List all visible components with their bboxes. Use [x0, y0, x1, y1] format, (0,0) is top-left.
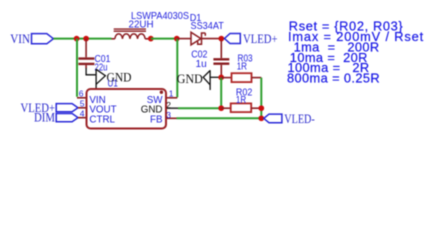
svg-text:1: 1: [169, 88, 174, 98]
wire FB pin stub: [166, 117, 177, 119]
port VLED+ top: [225, 32, 278, 46]
ground GND2 (C02): [203, 70, 221, 90]
wire pin2 to R02: [178, 107, 221, 109]
svg-text:1u: 1u: [196, 59, 207, 70]
node junction pin2/R02: [218, 105, 224, 111]
node junction FB/VLED-: [258, 115, 264, 121]
svg-text:VLED-: VLED-: [284, 112, 315, 126]
svg-text:LSWPA4030S: LSWPA4030S: [131, 11, 189, 22]
node junction left2: [83, 36, 89, 42]
wire R03 right stub: [252, 77, 262, 79]
inductor L1: [112, 29, 149, 39]
capacitor C01: [78, 39, 94, 69]
pin1 dot marker: [160, 91, 163, 94]
svg-text:DIM: DIM: [34, 111, 55, 125]
svg-text:VLED+: VLED+: [243, 32, 278, 46]
svg-text:CTRL: CTRL: [89, 114, 115, 125]
svg-text:FB: FB: [150, 114, 163, 125]
wire R03 left stub: [221, 77, 231, 79]
svg-text:800ma = 0.25R: 800ma = 0.25R: [287, 71, 380, 86]
wire inductor to SW node: [151, 38, 177, 40]
svg-text:GND: GND: [177, 71, 203, 86]
svg-text:4: 4: [80, 109, 85, 119]
port VLED-: [264, 112, 315, 126]
wire vertical to SW pin: [176, 39, 178, 98]
svg-text:1R: 1R: [236, 95, 246, 106]
wire GND vertical C02 to pin2 row: [220, 77, 222, 108]
wire VIN rail: [53, 38, 111, 40]
wire pin5 stub: [78, 107, 87, 109]
svg-text:3: 3: [166, 110, 171, 120]
node junction VLED+: [218, 36, 224, 42]
wire pin6 stub: [77, 97, 87, 99]
capacitor C02: [213, 40, 229, 77]
svg-text:5: 5: [80, 99, 85, 109]
node junction R02 right: [258, 105, 264, 111]
IC U1 body: [87, 89, 167, 129]
wire FB to VLED-: [177, 117, 262, 119]
node junction GND2/C02/R03: [218, 75, 224, 81]
port VLED+ left (pin5): [21, 101, 79, 115]
wire right vertical (FB net): [260, 78, 262, 119]
diode D1: [177, 32, 218, 45]
resistor R03: [232, 73, 252, 82]
resistor R02: [231, 103, 252, 112]
svg-text:2: 2: [166, 100, 171, 110]
svg-text:SS34AT: SS34AT: [191, 21, 224, 32]
svg-text:6: 6: [79, 88, 84, 98]
wire R02 left stub: [221, 107, 231, 109]
svg-text:1R: 1R: [237, 61, 247, 72]
wire SW stub: [166, 97, 177, 99]
node junction after inductor: [148, 36, 154, 42]
wire diode to VLED+: [219, 38, 225, 40]
svg-text:U1: U1: [108, 79, 119, 90]
wire vertical to pin6: [76, 39, 78, 97]
port VIN: [10, 32, 53, 46]
wire pin2 stub (black): [166, 107, 178, 109]
node junction left1: [74, 36, 80, 42]
ground GND1 (C01): [86, 68, 105, 89]
port DIM (pin4): [34, 111, 78, 125]
svg-text:VIN: VIN: [10, 32, 30, 46]
node junction SW: [174, 36, 180, 42]
wire pin4 stub: [78, 117, 87, 119]
wire R02 right stub: [251, 107, 261, 109]
